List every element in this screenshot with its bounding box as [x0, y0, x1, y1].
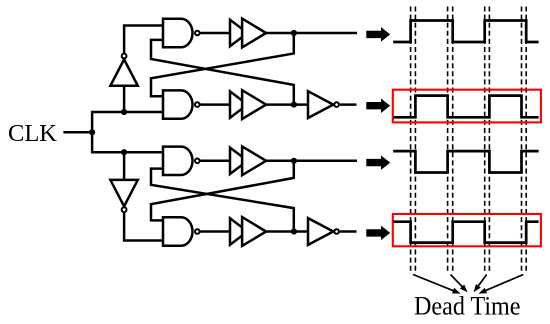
wire U1 output up — [123, 26, 126, 54]
NAND G3 output bubble — [195, 159, 200, 164]
wire to NAND4 input B — [123, 239, 163, 242]
waveform row 1 — [393, 21, 538, 43]
wire G1 output — [200, 32, 230, 35]
wire row 2 inverter to arrow — [340, 103, 357, 106]
wire G2 output — [200, 103, 230, 106]
NAND G1 output bubble — [195, 31, 200, 36]
wire CLK to trunk — [63, 131, 93, 134]
NAND gate G1 — [163, 19, 193, 47]
buffer pair row 1 — [230, 20, 248, 46]
wire G3 output — [200, 160, 230, 163]
NAND gate G2 — [163, 90, 193, 118]
dead time arrow 3 — [476, 275, 486, 289]
dashed line pair 1 left — [410, 7, 412, 272]
dead time arrow 2 — [451, 275, 465, 289]
dashed line pair 4 right — [525, 7, 527, 272]
svg-text:CLK: CLK — [8, 120, 57, 147]
inverter U2 (CLK bar, down) — [110, 180, 137, 206]
arrow row 4 — [366, 226, 390, 241]
wire row 1 to arrow — [266, 32, 357, 35]
dead time arrow 1 — [413, 275, 456, 292]
dashed line pair 3 right — [488, 7, 490, 272]
NAND G4 output bubble — [195, 229, 200, 234]
wire top branch to NAND2 input B — [92, 111, 163, 114]
dashed line pair 3 left — [484, 7, 486, 272]
wire bottom branch to NAND3 input A — [92, 151, 163, 154]
wire G4 output — [200, 230, 230, 233]
NAND gate G3 — [163, 147, 193, 175]
arrow row 3 — [366, 155, 390, 170]
inverter U1 (CLK bar, up) — [110, 59, 137, 85]
node row 2 junction — [291, 102, 297, 108]
node row 1 junction — [291, 30, 297, 36]
dead time arrow 4 — [483, 275, 523, 292]
output inverter row 4 — [308, 218, 333, 245]
node top branch junction — [121, 109, 127, 115]
wire U2 output down — [123, 213, 126, 241]
svg-text:Dead Time: Dead Time — [414, 292, 521, 321]
arrow row 1 — [366, 27, 390, 42]
wire feedback row2 to NAND1 input B — [151, 40, 294, 105]
wire row 2 buffer to inverter — [266, 103, 308, 106]
wire to NAND1 input A — [123, 24, 163, 27]
arrow row 2 — [366, 98, 390, 113]
red box waveform 2 — [393, 90, 541, 123]
dashed line pair 2 right — [452, 7, 454, 272]
wire feedback row1 to NAND2 input A — [151, 33, 294, 96]
wire row 4 buffer to inverter — [266, 230, 308, 233]
waveform row 4 — [393, 222, 538, 243]
node bottom branch junction — [121, 149, 127, 155]
buffer pair row 2 — [230, 91, 248, 117]
node CLK junction — [89, 129, 95, 135]
wire feedback row4 to NAND3 input B — [151, 169, 294, 232]
wire row 4 inverter to arrow — [340, 230, 357, 233]
inverter U1 bubble — [122, 54, 127, 59]
wire trunk vertical — [91, 111, 94, 154]
wire to inverter U2 input — [123, 152, 126, 180]
wire to inverter U1 input — [123, 86, 126, 112]
red box waveform 4 — [393, 214, 541, 246]
node row 3 junction — [291, 158, 297, 164]
wire feedback row3 to NAND4 input A — [151, 161, 294, 221]
waveform row 3 — [393, 151, 538, 172]
dashed line pair 2 left — [447, 7, 449, 272]
output inverter row 2 — [308, 91, 333, 118]
inverter U2 bubble — [122, 207, 127, 212]
buffer pair row 4 — [230, 218, 248, 244]
buffer pair row 3 — [230, 148, 248, 174]
dashed line pair 4 left — [521, 7, 523, 272]
NAND G2 output bubble — [195, 102, 200, 107]
dashed line pair 1 right — [414, 7, 416, 272]
node row 4 junction — [291, 228, 297, 234]
wire row 3 to arrow — [266, 160, 357, 163]
waveform row 2 — [393, 96, 538, 118]
NAND gate G4 — [163, 217, 192, 245]
